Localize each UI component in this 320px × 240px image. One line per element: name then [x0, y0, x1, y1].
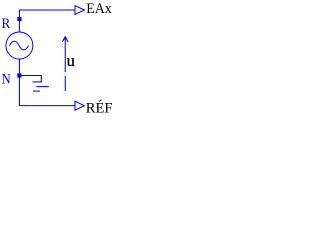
svg-text:R: R: [2, 15, 11, 32]
svg-text:EAx: EAx: [86, 1, 112, 18]
svg-text:u: u: [67, 51, 75, 70]
svg-text:RÉF: RÉF: [86, 99, 112, 116]
svg-text:N: N: [2, 72, 11, 88]
